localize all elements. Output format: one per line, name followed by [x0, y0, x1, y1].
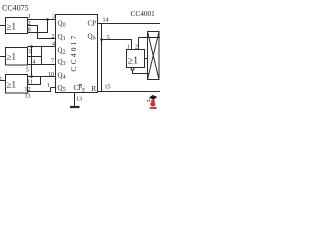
svg-text:R: R: [92, 85, 97, 93]
svg-text:≥1: ≥1: [7, 79, 16, 89]
svg-text:CC4017: CC4017: [69, 33, 78, 71]
svg-text:4: 4: [33, 59, 36, 65]
svg-text:CP: CP: [88, 20, 97, 28]
svg-text:8: 8: [28, 28, 31, 34]
svg-text:10: 10: [48, 72, 54, 78]
svg-text:5: 5: [26, 68, 29, 74]
svg-text:1: 1: [28, 14, 31, 20]
svg-text:≥1: ≥1: [7, 22, 16, 32]
svg-text:14: 14: [103, 18, 109, 24]
svg-text:1: 1: [47, 83, 50, 89]
svg-text:13: 13: [76, 97, 82, 103]
svg-text:5: 5: [107, 35, 110, 41]
svg-text:3: 3: [28, 49, 31, 55]
svg-text:15: 15: [105, 84, 111, 90]
svg-text:2: 2: [135, 45, 138, 51]
svg-text:11: 11: [27, 80, 33, 86]
svg-text:2: 2: [28, 21, 31, 27]
svg-text:0: 0: [0, 77, 2, 83]
svg-text:≥1: ≥1: [7, 51, 16, 61]
svg-text:7: 7: [51, 59, 54, 65]
svg-text:12: 12: [25, 87, 31, 93]
svg-text:CC4001: CC4001: [131, 9, 156, 18]
svg-text:≥1: ≥1: [128, 56, 139, 67]
svg-text:3: 3: [52, 15, 55, 21]
svg-text:1: 1: [127, 45, 130, 51]
svg-text:2: 2: [52, 34, 55, 40]
svg-text:CC4075: CC4075: [2, 4, 29, 13]
svg-text:4: 4: [52, 42, 55, 48]
svg-text:13: 13: [25, 94, 31, 100]
